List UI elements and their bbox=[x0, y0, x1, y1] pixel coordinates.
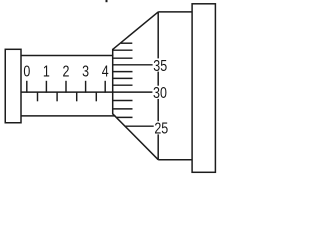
svg-text:2: 2 bbox=[63, 63, 70, 81]
svg-text:25: 25 bbox=[154, 120, 168, 138]
svg-text:3: 3 bbox=[82, 63, 89, 81]
svg-text:35: 35 bbox=[153, 57, 167, 75]
svg-text:4: 4 bbox=[102, 63, 109, 81]
svg-text:1: 1 bbox=[43, 63, 50, 81]
svg-text:0: 0 bbox=[23, 63, 30, 81]
svg-text:30: 30 bbox=[153, 85, 167, 103]
